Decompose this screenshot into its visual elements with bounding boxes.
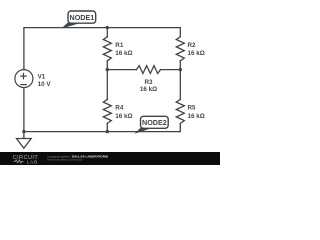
svg-text:V1: V1 <box>38 74 46 81</box>
svg-text:NODE2: NODE2 <box>142 118 167 127</box>
svg-text:R5: R5 <box>188 104 197 111</box>
svg-text:16 kΩ: 16 kΩ <box>188 113 205 120</box>
svg-text:16 kΩ: 16 kΩ <box>115 113 132 120</box>
svg-text:http://circuitlab.com/c/q5y: http://circuitlab.com/c/q5y <box>48 158 83 162</box>
svg-text:R1: R1 <box>115 42 124 49</box>
svg-text:R4: R4 <box>115 104 124 111</box>
svg-text:16 kΩ: 16 kΩ <box>188 50 205 57</box>
svg-text:R2: R2 <box>188 42 197 49</box>
svg-text:16 kΩ: 16 kΩ <box>115 50 132 57</box>
svg-text:16 kΩ: 16 kΩ <box>140 86 157 93</box>
svg-text:R3: R3 <box>144 79 153 86</box>
svg-text:10 V: 10 V <box>38 81 52 88</box>
svg-text:LAB: LAB <box>27 159 38 164</box>
svg-text:NODE1: NODE1 <box>70 13 95 22</box>
